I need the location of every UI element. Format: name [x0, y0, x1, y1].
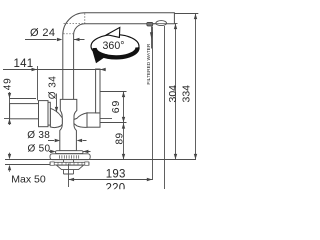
arrows 141 — [32, 68, 38, 71]
aerator dome at spout end — [156, 21, 167, 26]
body column (Ø34/Ø38) with neck — [60, 99, 77, 150]
countertop line — [5, 159, 196, 161]
304 extension (tube bottom continue) — [174, 23, 177, 25]
base plate — [50, 154, 90, 160]
ring ellipse — [91, 35, 139, 58]
svg-text:49: 49 — [2, 77, 13, 90]
arrows 89 — [122, 123, 125, 129]
dim Max50 tails — [9, 153, 11, 172]
dim 193 line — [69, 179, 153, 181]
left valve cone — [50, 108, 62, 127]
left lever bar — [10, 104, 39, 119]
dim 69/89 middle extension — [100, 122, 126, 124]
arrows O24 — [57, 38, 63, 41]
360 swivel symbol — [91, 27, 139, 63]
arrows 193 — [69, 178, 75, 181]
axis centre line — [68, 164, 70, 188]
svg-text:193: 193 — [106, 169, 126, 181]
right valve cone — [74, 113, 87, 127]
left block lip — [48, 102, 50, 125]
svg-text:69: 69 — [110, 100, 122, 113]
svg-text:Ø 38: Ø 38 — [27, 130, 50, 141]
svg-text:141: 141 — [14, 58, 34, 70]
svg-text:304: 304 — [167, 85, 179, 103]
shank below counter — [64, 160, 74, 174]
arrows O38 — [55, 139, 61, 142]
arrows O50 — [50, 150, 56, 153]
white arrowhead top — [107, 27, 120, 37]
base plate ribbed ring — [60, 155, 79, 158]
arrows 304 — [174, 24, 177, 30]
dim 49 extension top — [10, 98, 37, 100]
dim 69/89 line — [123, 92, 125, 160]
dim Ø34 leader — [56, 94, 58, 112]
svg-text:89: 89 — [114, 133, 125, 145]
arrows 49 (outside) — [8, 93, 11, 99]
220 extension — [164, 26, 166, 189]
dim Ø38 line — [48, 140, 87, 142]
svg-text:360°: 360° — [103, 40, 125, 52]
spout L-tube outline — [63, 13, 175, 100]
counter underside line — [5, 164, 53, 166]
dim Ø24 line — [25, 39, 85, 41]
base disc Ø50 — [56, 151, 84, 154]
flow arrow head — [150, 32, 153, 39]
svg-text:Ø 34: Ø 34 — [48, 76, 59, 100]
svg-text:Ø 50: Ø 50 — [28, 144, 51, 155]
filtered water leader / 193 extension — [152, 27, 154, 181]
svg-text:Ø 24: Ø 24 — [30, 27, 55, 39]
dim 141 line — [3, 69, 106, 71]
dim 69 top extension — [100, 91, 126, 93]
arrows 334 — [194, 14, 197, 20]
flow arrow line — [151, 27, 153, 49]
dim 141 left extension — [37, 66, 39, 100]
filtered water nozzle — [147, 22, 153, 26]
334 top extension — [174, 13, 198, 15]
arrow O34 leader — [55, 107, 58, 113]
mounting nut — [57, 165, 84, 169]
mounting washer with tabs — [50, 162, 89, 165]
black tail arrowhead bottom-left — [93, 51, 109, 63]
dim Ø50 line — [49, 151, 91, 153]
dim 304 line — [175, 23, 177, 159]
left valve block — [39, 101, 49, 127]
arrows 69 — [122, 92, 125, 98]
bend tangent dashed horizontal — [63, 33, 73, 35]
dim 49 extension bottom — [4, 118, 10, 120]
svg-text:Max 50: Max 50 — [11, 174, 46, 186]
svg-text:334: 334 — [181, 85, 193, 103]
bend tangent dashed vertical — [84, 13, 86, 23]
crop mask over 220 label — [98, 189, 132, 200]
dim 334 line — [195, 13, 197, 159]
svg-text:FILTERED WATER: FILTERED WATER — [146, 43, 152, 84]
arrows Max50 (outside) — [8, 154, 11, 160]
right handle vertical bar — [96, 69, 100, 113]
dim 49 line — [9, 92, 11, 125]
ring thick black bottom band — [95, 47, 138, 57]
right valve block — [87, 113, 100, 127]
